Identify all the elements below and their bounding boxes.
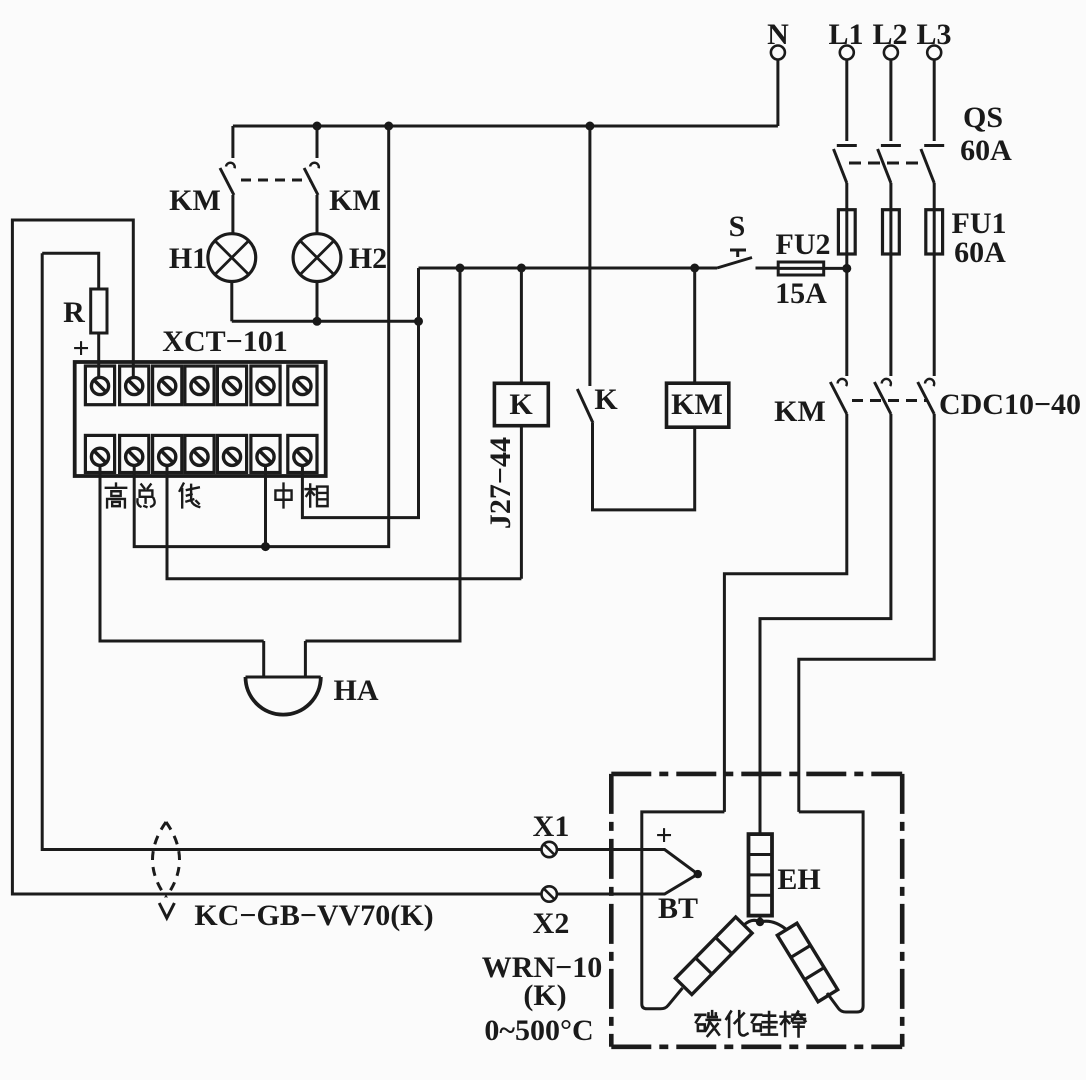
contactor coil KM bbox=[667, 268, 729, 427]
svg-text:FU2: FU2 bbox=[776, 228, 831, 261]
thermocouple BT wire X1 bbox=[557, 850, 698, 875]
terminal screw top 4 bbox=[191, 377, 208, 394]
wire L1 to KM bbox=[845, 264, 848, 376]
terminal cell top 4 bbox=[185, 366, 214, 405]
terminal screw top 5 bbox=[223, 377, 240, 394]
svg-text:(K): (K) bbox=[523, 979, 566, 1012]
terminal cell top 7 bbox=[288, 366, 317, 405]
relay coil K bbox=[494, 268, 548, 579]
svg-text:XCT−101: XCT−101 bbox=[162, 325, 287, 358]
node L2 bbox=[872, 18, 907, 141]
svg-text:15A: 15A bbox=[775, 277, 827, 310]
svg-text:R: R bbox=[63, 296, 85, 329]
wire rod left to star bbox=[744, 920, 760, 925]
junction 中总 bbox=[261, 542, 270, 551]
terminal X1 bbox=[542, 842, 557, 857]
svg-text:X2: X2 bbox=[533, 907, 570, 940]
terminal screw top 7 bbox=[294, 377, 311, 394]
wire furnace left loop bbox=[642, 812, 725, 1009]
svg-text:KM: KM bbox=[671, 388, 723, 421]
fuse FU2 bbox=[778, 262, 847, 275]
wire phase branch bbox=[302, 268, 418, 518]
wire rod right to star bbox=[760, 921, 787, 930]
svg-text:60A: 60A bbox=[960, 134, 1012, 167]
terminal cell bottom 3 bbox=[153, 435, 182, 472]
terminal cell bottom 1 bbox=[85, 435, 114, 472]
svg-text:+: + bbox=[72, 332, 89, 365]
label 中 bbox=[275, 484, 291, 508]
junction K coil feed bbox=[517, 264, 526, 273]
svg-text:60A: 60A bbox=[954, 236, 1006, 269]
junction lamp rail phase bbox=[414, 317, 423, 326]
terminal screw bottom 3 bbox=[159, 448, 176, 465]
wire control rail bbox=[419, 267, 718, 270]
terminal cell bottom 6 bbox=[251, 435, 280, 472]
wire lamp rail bbox=[232, 320, 419, 323]
svg-text:J27−44: J27−44 bbox=[484, 437, 517, 529]
thermocouple BT wire X2 bbox=[557, 874, 698, 894]
fuse FU1 pole 2 bbox=[883, 210, 900, 376]
svg-text:K: K bbox=[594, 383, 618, 416]
terminal screw bottom 2 bbox=[126, 448, 143, 465]
node L3 bbox=[916, 18, 951, 141]
svg-text:HA: HA bbox=[334, 674, 379, 707]
svg-text:N: N bbox=[767, 18, 789, 51]
switch QS pole 3 bbox=[921, 146, 944, 210]
heater rod right bbox=[777, 923, 837, 1002]
terminal cell bottom 4 bbox=[185, 435, 214, 472]
lamp H1 bbox=[208, 234, 256, 322]
terminal cell bottom 7 bbox=[288, 435, 317, 472]
wire 中 branch bbox=[264, 466, 267, 547]
cable marker bbox=[153, 822, 180, 918]
wire 总 branch bbox=[134, 126, 389, 547]
terminal cell bottom 5 bbox=[217, 435, 246, 472]
junction rail N Kcontact bbox=[585, 122, 594, 131]
switch QS pole 2 bbox=[878, 146, 901, 210]
svg-text:H1: H1 bbox=[169, 242, 207, 275]
junction rail N common bbox=[384, 122, 393, 131]
label 总 bbox=[137, 484, 154, 507]
junction BT tip bbox=[694, 870, 702, 878]
terminal screw bottom 6 bbox=[257, 448, 274, 465]
junction FU2-L1 bbox=[842, 264, 851, 273]
svg-text:L1: L1 bbox=[828, 18, 863, 51]
wire N rail bbox=[233, 125, 778, 128]
svg-text:L2: L2 bbox=[872, 18, 907, 51]
svg-text:L3: L3 bbox=[916, 18, 951, 51]
contact K bbox=[577, 126, 694, 510]
junction star point bbox=[756, 918, 764, 926]
terminal screw bottom 4 bbox=[191, 448, 208, 465]
junction lamp H2 bbox=[313, 317, 322, 326]
label 碳 bbox=[696, 1011, 720, 1036]
terminal screw top 6 bbox=[257, 377, 274, 394]
svg-text:H2: H2 bbox=[349, 242, 387, 275]
label 低 bbox=[180, 484, 200, 508]
lamp H2 bbox=[293, 234, 341, 322]
svg-text:QS: QS bbox=[963, 101, 1003, 134]
contactor KM pole 2 bbox=[760, 379, 891, 834]
fuse FU1 pole 3 bbox=[926, 210, 943, 376]
terminal cell top 2 bbox=[120, 366, 149, 405]
junction HA feed bbox=[456, 264, 465, 273]
svg-text:KM: KM bbox=[329, 184, 381, 217]
wire X1 branch bbox=[42, 253, 541, 849]
QS pole link bbox=[849, 162, 925, 165]
wire furnace right loop bbox=[799, 812, 863, 1012]
furnace enclosure bbox=[611, 774, 902, 1047]
wire HA feed bbox=[305, 268, 460, 641]
svg-text:EH: EH bbox=[777, 863, 820, 896]
heater rod left bbox=[675, 917, 752, 994]
terminal cell top 3 bbox=[153, 366, 182, 405]
terminal cell bottom 2 bbox=[120, 435, 149, 472]
terminal X2 bbox=[542, 886, 557, 901]
resistor R bbox=[42, 253, 107, 378]
terminal screw bottom 5 bbox=[223, 448, 240, 465]
svg-text:KC−GB−VV70(K): KC−GB−VV70(K) bbox=[194, 899, 433, 932]
KM pole link bbox=[852, 399, 927, 402]
svg-text:S: S bbox=[729, 210, 746, 243]
switch QS pole 1 bbox=[834, 146, 857, 210]
terminal block XCT-101 bbox=[75, 362, 326, 476]
label QS 60A bbox=[960, 101, 1012, 167]
node L1 bbox=[828, 18, 863, 141]
contact KM aux 2 bbox=[304, 126, 319, 234]
terminal screw top 3 bbox=[159, 377, 176, 394]
terminal cell top 1 bbox=[85, 366, 114, 405]
svg-text:KM: KM bbox=[169, 184, 221, 217]
svg-text:X1: X1 bbox=[533, 810, 570, 843]
terminal cell top 5 bbox=[217, 366, 246, 405]
KM aux link bbox=[241, 179, 311, 182]
svg-text:+: + bbox=[655, 819, 672, 852]
svg-text:0~500°C: 0~500°C bbox=[484, 1014, 593, 1047]
svg-text:K: K bbox=[509, 388, 533, 421]
wire X2 branch bbox=[12, 220, 541, 894]
terminal screw top 1 bbox=[91, 377, 108, 394]
heater EH bbox=[749, 834, 773, 920]
switch S bbox=[717, 250, 778, 268]
contactor KM pole 1 bbox=[724, 379, 846, 812]
label 高 bbox=[106, 484, 126, 508]
contactor KM pole 3 bbox=[799, 379, 934, 812]
terminal cell top 6 bbox=[251, 366, 280, 405]
terminal screw bottom 1 bbox=[91, 448, 108, 465]
junction rail N lamp2 bbox=[313, 122, 322, 131]
wire 高 branch bbox=[100, 466, 264, 641]
wire 低 branch bbox=[167, 466, 521, 579]
label 棒 bbox=[781, 1012, 806, 1037]
junction KM coil feed bbox=[690, 264, 699, 273]
svg-text:CDC10−40: CDC10−40 bbox=[939, 388, 1081, 421]
svg-text:KM: KM bbox=[774, 395, 826, 428]
label 相 bbox=[306, 484, 328, 506]
label FU1 60A bbox=[952, 207, 1007, 269]
fuse FU1 pole 1 bbox=[838, 210, 855, 264]
label 硅 bbox=[752, 1012, 777, 1035]
svg-text:BT: BT bbox=[658, 892, 698, 925]
bell HA bbox=[246, 641, 321, 715]
label 化 bbox=[726, 1011, 747, 1037]
terminal screw bottom 7 bbox=[294, 448, 311, 465]
contact KM aux 1 bbox=[220, 126, 235, 234]
terminal screw top 2 bbox=[126, 377, 143, 394]
node N bbox=[767, 18, 789, 126]
